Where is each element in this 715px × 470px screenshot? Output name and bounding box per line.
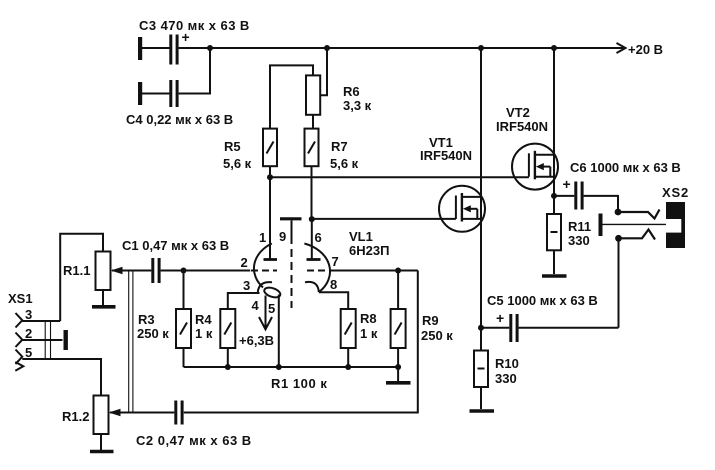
wire R9 bottom: [397, 348, 399, 367]
cathode left triode: [258, 282, 272, 292]
XS2 common wire to plug: [603, 223, 667, 225]
wire pin 8 cathode to R8: [319, 292, 348, 309]
wire R1.1 bottom: [102, 290, 104, 305]
node rail VT2 drain: [551, 45, 557, 51]
capacitor C2: [174, 401, 183, 425]
wire VT1 source to C5: [481, 327, 509, 329]
wire R7 bottom to node pin6: [311, 166, 313, 219]
wire R10 top: [480, 328, 482, 351]
wire R4 bottom: [227, 348, 229, 367]
svg-text:4: 4: [252, 298, 260, 313]
transistor VT1: [439, 186, 485, 232]
wire R1.2 top to XS1 pin5: [22, 359, 101, 396]
wire pin 2 grid lead: [184, 270, 251, 272]
node rail VT1 drain: [478, 45, 484, 51]
wire C5 to XS2 riser: [519, 327, 619, 329]
wire C6 to XS2 upper contact: [584, 196, 618, 212]
ground bar R1.2: [90, 450, 114, 454]
wire R8 bottom: [347, 348, 349, 367]
svg-text:C3 470 мк x 63 В: C3 470 мк x 63 В: [139, 18, 250, 33]
wiper arrow R1.2: [109, 409, 121, 417]
wire VT2 drain-source vertical: [553, 48, 555, 196]
node VT2 source / C6 / R11: [551, 193, 557, 199]
svg-text:330: 330: [495, 371, 517, 386]
resistor R7: [305, 129, 319, 167]
resistor R3: [176, 309, 191, 348]
wire pin 4 heater arrow: [265, 296, 267, 329]
svg-text:C4 0,22 мк x 63 В: C4 0,22 мк x 63 В: [126, 112, 233, 127]
svg-text:+: +: [496, 310, 504, 326]
svg-text:R10: R10: [495, 356, 519, 371]
wire pin 6 anode lead: [311, 219, 313, 259]
node XS2 upper contact: [615, 209, 622, 216]
svg-text:R11: R11: [568, 219, 591, 234]
wire node to VT1 gate: [312, 218, 456, 220]
wire C4 up to rail: [179, 48, 210, 94]
wire C1 to node: [161, 270, 184, 272]
resistor R5: [263, 129, 277, 167]
ground bar R1.1: [92, 305, 116, 309]
capacitor C3: [169, 35, 178, 65]
wire VT2 source to C6: [554, 195, 574, 197]
svg-text:XS2: XS2: [662, 185, 689, 200]
wiper arrow R1.1: [111, 267, 123, 275]
wire C3 to rail: [179, 47, 210, 49]
capacitor C1: [151, 258, 160, 283]
svg-text:C2 0,47 мк x 63 В: C2 0,47 мк x 63 В: [136, 433, 252, 448]
wire R11 bottom: [553, 250, 555, 274]
svg-text:R4: R4: [195, 312, 212, 327]
svg-text:1 к: 1 к: [195, 326, 213, 341]
cathode right triode: [305, 282, 319, 292]
heater loop: [263, 286, 281, 299]
wire R6 to R7: [312, 115, 314, 129]
node bus R9 ground: [395, 364, 401, 370]
wire XS2 lower contact down to C5: [618, 238, 620, 327]
svg-text:5,6 к: 5,6 к: [330, 156, 359, 171]
wire rail down to R6 side tap: [320, 48, 327, 95]
ground bus: [184, 366, 399, 368]
grid left triode: [251, 270, 277, 272]
shield stub: [291, 220, 293, 236]
wire C2 to R1.2 wiper: [110, 412, 174, 414]
svg-text:3,3 к: 3,3 к: [343, 98, 372, 113]
wire pin7 to C2 riser: [184, 271, 418, 413]
wire R10 bottom: [480, 387, 482, 409]
terminal bar for C3 input: [138, 37, 142, 60]
anode plate left triode: [264, 258, 278, 261]
node C3/C4 rail junction: [207, 45, 213, 51]
shielded cable lines near XS1: [45, 321, 50, 359]
node R7 / pin6 / VT1 gate: [309, 216, 315, 222]
resistor R11: [547, 214, 561, 250]
svg-text:R9: R9: [422, 313, 439, 328]
XS2 plug body: [666, 202, 685, 248]
svg-text:R1.2: R1.2: [62, 409, 89, 424]
wire pin 5 heater to bus: [278, 295, 280, 368]
svg-text:8: 8: [330, 277, 337, 292]
svg-text:5: 5: [268, 301, 275, 316]
node pin7 / R9 / C2 wire: [395, 268, 401, 274]
wire R5/R6 top link: [270, 65, 313, 128]
wire R1.1 top loop to XS1 pin3: [60, 234, 103, 321]
svg-text:R3: R3: [138, 312, 155, 327]
wire pin 1 anode lead: [269, 177, 271, 259]
transistor VT2: [512, 144, 558, 190]
svg-text:R1 100 к: R1 100 к: [271, 376, 327, 391]
node C1 / R3 / pin2: [181, 268, 187, 274]
wire R11 top: [553, 196, 555, 214]
node VT1 source / C5 / R10: [478, 325, 484, 331]
wire R9 top lead: [397, 271, 399, 310]
svg-text:+20 В: +20 В: [628, 42, 663, 57]
wire VT1 drain-source vertical: [480, 48, 482, 328]
svg-text:R7: R7: [331, 139, 348, 154]
svg-text:5,6 к: 5,6 к: [223, 156, 252, 171]
svg-text:2: 2: [25, 326, 32, 341]
capacitor C5: [509, 314, 518, 342]
svg-text:5: 5: [25, 345, 32, 360]
svg-text:330: 330: [568, 233, 590, 248]
potentiometer R1.2: [94, 396, 109, 435]
wire XS1 pin2 to shield bar: [22, 339, 62, 341]
wire C4 terminal to C4: [142, 93, 170, 95]
svg-text:VL1: VL1: [349, 229, 373, 244]
svg-text:250 к: 250 к: [421, 328, 453, 343]
anode plate right triode: [307, 258, 321, 261]
svg-text:+6,3В: +6,3В: [239, 333, 274, 348]
svg-text:IRF540N: IRF540N: [420, 148, 472, 163]
capacitor C6: [574, 182, 583, 210]
svg-text:250 к: 250 к: [137, 326, 169, 341]
XS2 upper contact arm: [618, 210, 660, 219]
svg-text:C1 0,47 мк x 63 В: C1 0,47 мк x 63 В: [122, 238, 229, 253]
wire C3 terminal to C3: [142, 47, 170, 49]
headphone jack XS2 common bar: [599, 214, 603, 237]
svg-text:C6 1000 мк x 63 В: C6 1000 мк x 63 В: [570, 160, 681, 175]
wire R1.2 bottom: [100, 434, 102, 450]
svg-text:3: 3: [243, 278, 250, 293]
ground bar R11: [542, 274, 567, 278]
node rail to R6 tap: [324, 45, 330, 51]
svg-text:XS1: XS1: [8, 291, 33, 306]
arrow +20V: [617, 43, 626, 53]
svg-text:9: 9: [279, 229, 286, 244]
svg-text:R5: R5: [224, 139, 241, 154]
terminal bar for C4 input: [138, 82, 142, 105]
wire pin 3 cathode to R4: [228, 293, 260, 309]
svg-text:7: 7: [332, 254, 339, 269]
ground bar under R9: [386, 381, 411, 385]
svg-text:R1.1: R1.1: [63, 263, 90, 278]
resistor R8: [341, 309, 356, 348]
resistor R6: [306, 75, 320, 114]
svg-text:6: 6: [315, 230, 322, 245]
svg-text:R8: R8: [360, 311, 377, 326]
svg-text:2: 2: [241, 255, 248, 270]
ground stub under R9: [397, 367, 399, 381]
resistor R4: [220, 309, 235, 348]
XS1 contact pin 3: [16, 313, 23, 328]
wire R5 bottom to node: [269, 166, 271, 177]
XS1 contact shell: [15, 362, 23, 371]
wire pin 7 grid lead: [332, 270, 418, 272]
shield terminal bar XS1: [64, 330, 68, 350]
XS1 contact pin 5: [16, 350, 23, 365]
svg-text:3: 3: [25, 307, 32, 322]
wire +20V rail: [210, 47, 624, 49]
svg-text:1 к: 1 к: [360, 326, 378, 341]
wire R3 top lead: [183, 271, 185, 310]
potentiometer R1.1: [96, 252, 111, 291]
node XS2 lower contact: [615, 235, 622, 242]
svg-text:IRF540N: IRF540N: [496, 119, 548, 134]
svg-text:C5 1000 мк x 63 В: C5 1000 мк x 63 В: [487, 293, 598, 308]
wire R3 bottom: [183, 348, 185, 367]
wire R1.1 wiper to C1: [112, 270, 151, 272]
XS1 contact pin 2: [16, 333, 23, 348]
XS2 lower contact arm: [619, 230, 656, 240]
resistor R9: [391, 309, 406, 348]
svg-text:R6: R6: [343, 84, 360, 99]
node bus R4: [225, 364, 231, 370]
svg-text:VT2: VT2: [506, 105, 530, 120]
node bus R8: [345, 364, 351, 370]
svg-text:1: 1: [259, 230, 266, 245]
shield bar pin 9: [280, 217, 302, 220]
ground bar R10: [470, 409, 495, 413]
resistor R10: [474, 351, 488, 388]
node R5 / pin1 / VT2 gate: [267, 174, 273, 180]
wire node to VT2 gate: [270, 176, 529, 178]
capacitor C4: [169, 80, 178, 107]
svg-text:+: +: [563, 176, 571, 192]
wire XS1 pin3: [22, 320, 60, 322]
grid right triode: [307, 270, 333, 272]
shield divider dash-dot: [291, 236, 293, 308]
svg-text:6Н23П: 6Н23П: [349, 243, 389, 258]
arrowhead heater supply: [259, 317, 272, 329]
node bus heater pin5: [276, 364, 282, 370]
tube VL1 envelope: [254, 244, 330, 292]
shielded cable lines near C1/C2: [129, 271, 133, 413]
